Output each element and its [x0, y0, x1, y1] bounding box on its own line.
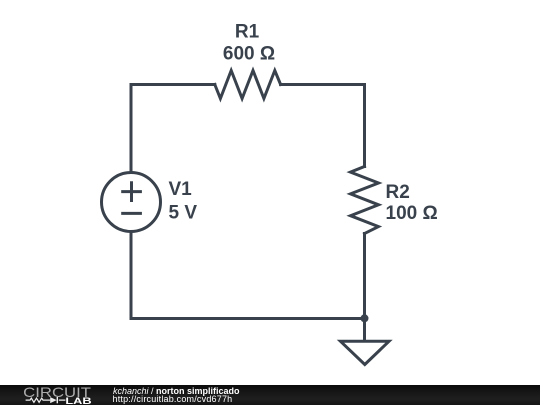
logo wire + resistor zigzag	[26, 398, 66, 402]
svg-text:600 Ω: 600 Ω	[223, 44, 275, 65]
ground symbol triangle	[341, 341, 390, 364]
svg-text:LAB: LAB	[65, 396, 91, 405]
wire bottom-left: up to V1 bottom	[130, 232, 133, 319]
V1 minus sign	[123, 212, 141, 215]
footer black bar	[0, 385, 540, 405]
voltage source V1 circle	[102, 173, 161, 232]
resistor R2 zigzag	[351, 167, 379, 234]
V1 plus sign	[123, 183, 141, 201]
CircuitLab logo	[22, 385, 122, 405]
logo diode bar	[56, 397, 58, 403]
credit line 2	[113, 395, 233, 404]
wire top-left: from V1 top up to top rail	[130, 85, 133, 173]
node junction dot	[361, 314, 369, 322]
wire top rail right segment	[281, 83, 365, 86]
logo diode triangle	[50, 397, 57, 403]
svg-text:R1: R1	[235, 22, 260, 43]
resistor R1 zigzag	[215, 71, 281, 99]
wire bottom rail	[131, 317, 365, 320]
wire ground stub	[363, 319, 366, 342]
svg-text:R2: R2	[386, 182, 410, 203]
wire right rail upper	[363, 85, 366, 167]
svg-text:V1: V1	[169, 179, 193, 200]
wire right rail lower	[363, 234, 366, 319]
credit line 1	[113, 387, 240, 396]
svg-text:100 Ω: 100 Ω	[386, 203, 438, 224]
svg-text:5 V: 5 V	[169, 203, 198, 224]
wire top rail left segment	[131, 83, 215, 86]
